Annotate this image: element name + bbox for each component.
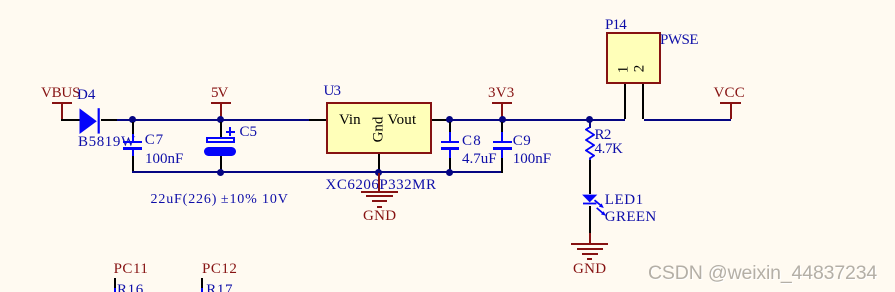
wire C8 to 3V3 node bbox=[451, 119, 503, 121]
resistor R17 label bbox=[206, 283, 233, 292]
watermark bbox=[648, 264, 877, 284]
wire 3V3 node to P14 pin1 bbox=[503, 119, 625, 121]
wire PC12 bbox=[201, 278, 203, 288]
node: R2 junction bbox=[586, 116, 593, 123]
wire PC11 bbox=[114, 278, 116, 288]
node: 5V junction bbox=[217, 116, 224, 123]
ground GND under LED1 bbox=[589, 233, 591, 243]
node: C5 bottom junction bbox=[217, 169, 224, 176]
port VBUS bbox=[41, 86, 80, 101]
node: U3 gnd junction bbox=[375, 169, 382, 176]
node PC11 bbox=[114, 262, 149, 277]
pin 2 bbox=[633, 59, 648, 77]
regulator U3 (XC6206P332MR) bbox=[326, 102, 432, 154]
node PC12 bbox=[202, 262, 237, 277]
pin 1 bbox=[616, 60, 631, 78]
wire VBUS to D4 bbox=[61, 119, 80, 121]
node: D4/C7 junction bbox=[129, 116, 136, 123]
diode D4 bbox=[79, 107, 101, 135]
wire D4 to 5V node bbox=[117, 119, 221, 121]
node: C8 bottom junction bbox=[446, 169, 453, 176]
wire R2 to LED1 bbox=[589, 160, 591, 194]
port VCC bbox=[714, 86, 745, 101]
resistor R2 bbox=[589, 121, 591, 128]
power port 5V bbox=[211, 86, 227, 101]
pin U3 Vout bbox=[432, 119, 451, 121]
pin U3 Vin bbox=[309, 119, 326, 121]
capacitor C5 bbox=[220, 122, 222, 137]
pin U3 Gnd bbox=[378, 154, 380, 171]
capacitor C9 bbox=[501, 122, 503, 132]
connector P14 bbox=[606, 32, 661, 84]
wire P14 pin2 to VCC bbox=[644, 119, 732, 121]
wire bottom GND rail bbox=[132, 171, 503, 173]
power port 3V3 bbox=[488, 86, 514, 101]
ground GND under U3 bbox=[378, 173, 380, 191]
node: Vout/C8 junction bbox=[446, 116, 453, 123]
pin D4 cathode bbox=[101, 119, 117, 121]
capacitor C8 bbox=[449, 122, 451, 132]
capacitor C7 bbox=[132, 122, 134, 134]
node: 3V3 junction bbox=[499, 116, 506, 123]
wire LED1 to GND bbox=[589, 206, 591, 234]
LED LED1 bbox=[577, 192, 611, 219]
wire 5V node to U3 Vin bbox=[221, 119, 309, 121]
resistor R16 label bbox=[117, 283, 144, 292]
